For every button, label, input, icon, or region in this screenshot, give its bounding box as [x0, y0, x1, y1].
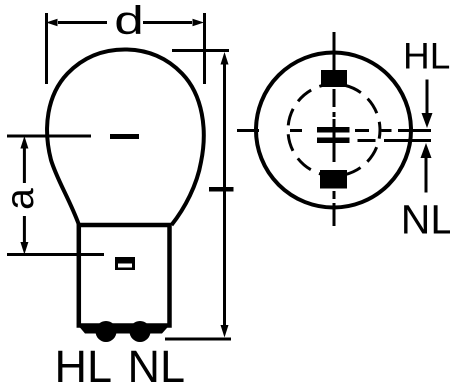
center filament bar lower	[317, 138, 350, 144]
bulb base shell (side view)	[79, 225, 170, 326]
bulb glass envelope (side view)	[47, 50, 204, 226]
dimension d: dimension line	[58, 21, 192, 24]
height dimension: arrowhead down	[221, 325, 229, 338]
svg-text:d: d	[114, 0, 144, 42]
center filament bar upper	[317, 127, 350, 133]
dimension d: left witness line	[45, 13, 48, 84]
dimension a: top extension line	[7, 135, 91, 138]
vertical centerline	[333, 32, 336, 226]
svg-text:HL: HL	[55, 341, 113, 387]
height dimension: middle tick mark	[209, 187, 234, 192]
dimension a: arrowhead up	[20, 136, 28, 149]
base bottom wedge	[77, 324, 172, 334]
svg-text:NL: NL	[128, 341, 186, 387]
HL pointer arrow (down)	[426, 80, 429, 115]
dimension a: bottom extension line	[7, 253, 104, 256]
dimension d: arrowhead right	[193, 19, 205, 27]
right solder contact bump	[130, 321, 151, 342]
dimension d: arrowhead left	[46, 19, 58, 27]
height dimension: vertical line	[223, 63, 226, 327]
dimension a: vertical dimension line	[23, 147, 26, 245]
HL filament mark inside glass	[110, 134, 139, 139]
dimension a: arrowhead down	[20, 242, 28, 255]
dimension d: right witness line	[203, 13, 206, 84]
height dimension: bottom extension line	[165, 338, 231, 341]
height dimension: top extension line	[172, 49, 229, 52]
NL reference line	[358, 139, 432, 142]
outer circle (top view)	[256, 53, 411, 208]
left solder contact bump	[96, 321, 117, 342]
inner dashed circle	[288, 84, 380, 176]
NL filament mark inside base (black rect with white slot)	[115, 257, 135, 270]
bottom filament pad (top view)	[320, 170, 347, 189]
top filament pad (top view)	[321, 70, 347, 87]
svg-text:NL: NL	[401, 197, 450, 243]
NL pointer arrow (up)	[425, 158, 428, 193]
horizontal centerline	[237, 129, 431, 132]
svg-text:HL: HL	[403, 36, 450, 77]
svg-text:a: a	[0, 188, 42, 210]
height dimension: arrowhead up	[221, 52, 229, 65]
